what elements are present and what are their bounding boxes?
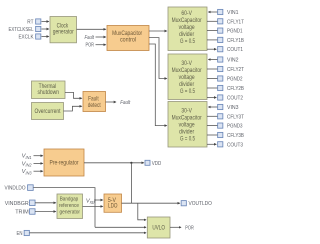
- svg-text:Pre-regulator: Pre-regulator: [50, 161, 79, 167]
- wire VIN2 into divider: [209, 59, 218, 61]
- svg-text:EXCLK: EXCLK: [19, 35, 34, 41]
- wire TRIM to bandgap: [35, 211, 56, 213]
- wire clock generator to MuxCapacitor control: [77, 28, 106, 30]
- wire 5-V LDO to VOUTLDO: [122, 202, 180, 204]
- wire VIN1 to pre-regulator: [34, 155, 43, 157]
- junction on VDD wire: [130, 162, 132, 164]
- svg-text:VIN3: VIN3: [22, 169, 32, 175]
- svg-text:CFLY2T: CFLY2T: [227, 67, 244, 73]
- pin CFLY1T: [218, 19, 245, 26]
- wire VIN3 to pre-regulator: [34, 170, 43, 172]
- wire EXCLK to clock generator: [42, 36, 49, 38]
- pin TRIM: [15, 209, 35, 216]
- svg-text:VIN2: VIN2: [22, 161, 32, 167]
- svg-text:EXTCLKSEL: EXTCLKSEL: [9, 27, 35, 33]
- pin CFLY2B: [218, 85, 244, 92]
- wire overcurrent to fault detect: [64, 106, 82, 111]
- 30-V MuxCapacitor voltage divider block U2: [168, 54, 207, 100]
- wire thermal shutdown to fault detect: [65, 92, 82, 98]
- pin PGND2: [218, 76, 243, 83]
- overcurrent block: [32, 103, 64, 120]
- svg-text:5-V LDO: 5-V LDO: [108, 198, 118, 210]
- bandgap reference generator block: [57, 194, 83, 219]
- svg-text:VIN2: VIN2: [227, 58, 239, 64]
- wire control to 60-V divider: [149, 30, 167, 32]
- wire VOUTLDO line down to UVLO: [138, 203, 146, 220]
- thermal shutdown block: [32, 81, 66, 99]
- wire CFLY3T: [207, 115, 218, 117]
- wire control to 30-V divider 2: [149, 38, 167, 79]
- wire control to 30-V divider 3: [149, 44, 167, 126]
- wire COUT3 out of divider: [207, 143, 216, 145]
- pin VIN1: [218, 9, 239, 16]
- wire bandgap VREF to 5-V LDO: [83, 205, 103, 207]
- pin VIN2: [218, 57, 239, 64]
- clock generator block: [50, 17, 77, 43]
- svg-text:POR: POR: [86, 43, 95, 49]
- wire UVLO to POR output: [170, 226, 181, 228]
- pin PGND3: [218, 123, 243, 130]
- svg-text:VINDBGR: VINDBGR: [5, 201, 29, 207]
- wire PGND3: [207, 125, 218, 127]
- svg-text:Fault detect: Fault detect: [88, 96, 101, 108]
- pin EXCLK: [19, 34, 41, 41]
- svg-text:VOUTLDO: VOUTLDO: [189, 201, 213, 207]
- wire POR to control: [96, 44, 106, 46]
- svg-text:POR: POR: [185, 225, 194, 231]
- junction VINDLDO branch to LDO: [94, 199, 96, 201]
- svg-text:CFLY3B: CFLY3B: [227, 133, 244, 139]
- pin COUT1: [218, 47, 243, 54]
- svg-text:COUT2: COUT2: [227, 96, 243, 102]
- svg-text:COUT3: COUT3: [227, 142, 243, 148]
- svg-text:CFLY1T: CFLY1T: [227, 19, 244, 25]
- pin EXTCLKSEL: [9, 26, 41, 33]
- pin VIN3: [218, 104, 239, 111]
- svg-text:PGND3: PGND3: [227, 124, 243, 130]
- svg-text:Overcurrent: Overcurrent: [35, 109, 61, 115]
- pin CFLY3B: [218, 132, 244, 139]
- pin COUT2: [218, 95, 243, 102]
- wire CFLY1T: [207, 20, 218, 22]
- svg-text:TRIM: TRIM: [15, 210, 29, 216]
- svg-text:CFLY1B: CFLY1B: [227, 38, 244, 44]
- wire VINDLDO branch into 5-V LDO: [95, 199, 103, 201]
- wire VINDLDO bottom to UVLO: [95, 226, 146, 228]
- pin CFLY1B: [218, 37, 244, 44]
- svg-text:VINDLDO: VINDLDO: [5, 186, 26, 192]
- wire CFLY3B: [207, 134, 218, 136]
- svg-text:Bandgap reference generator: Bandgap reference generator: [59, 197, 81, 216]
- svg-text:UVLO: UVLO: [152, 226, 165, 232]
- wire EXTCLKSEL to clock generator: [42, 28, 49, 30]
- svg-text:VREF: VREF: [86, 199, 96, 205]
- pin VINDBGR: [5, 200, 35, 207]
- svg-text:CFLY3T: CFLY3T: [227, 114, 244, 120]
- wire PGND1: [207, 30, 218, 32]
- wire VIN3 into divider: [209, 106, 218, 108]
- svg-text:COUT1: COUT1: [227, 47, 243, 53]
- pin CFLY3T: [218, 114, 245, 121]
- svg-text:Thermal shutdown: Thermal shutdown: [38, 84, 60, 96]
- svg-text:PGND1: PGND1: [227, 29, 243, 35]
- wire VIN2 to pre-regulator: [34, 162, 43, 164]
- svg-text:EN: EN: [17, 231, 23, 237]
- pin VINDLDO: [5, 185, 34, 192]
- svg-text:VDD: VDD: [152, 161, 162, 167]
- wire COUT1 out of divider: [207, 48, 216, 50]
- wire fault detect output: [106, 101, 116, 103]
- wire VINDBGR to bandgap: [35, 202, 56, 204]
- wire pre-regulator to VDD: [84, 162, 144, 164]
- svg-text:Fault: Fault: [120, 100, 130, 106]
- wire Fault to control: [96, 36, 106, 38]
- pin EN: [17, 230, 30, 237]
- svg-text:CFLY2B: CFLY2B: [227, 86, 244, 92]
- pre-regulator block: [44, 149, 84, 176]
- 30-V MuxCapacitor voltage divider block U3: [168, 102, 207, 148]
- wire EN to UVLO: [30, 232, 147, 234]
- wire CFLY2B: [207, 87, 218, 89]
- pin CFLY2T: [218, 66, 245, 73]
- pin COUT3: [218, 142, 243, 149]
- wire COUT2 out of divider: [207, 97, 216, 99]
- svg-text:VIN3: VIN3: [227, 105, 239, 111]
- pin PGND1: [218, 28, 243, 35]
- wire VDD junction down to VOUTLDO line: [130, 163, 132, 203]
- wire VINDLDO right and down: [33, 188, 95, 228]
- 5-V LDO block: [104, 194, 122, 212]
- wire VIN1 into divider: [209, 11, 218, 13]
- wire CFLY1B: [207, 39, 218, 41]
- svg-text:PGND2: PGND2: [227, 77, 243, 83]
- pin RT: [27, 19, 41, 26]
- wire PGND2: [207, 78, 218, 80]
- fault detect block: [83, 92, 106, 112]
- 60-V MuxCapacitor voltage divider block U1: [168, 7, 207, 51]
- wire RT to clock generator: [42, 21, 49, 23]
- wire CFLY2T: [207, 68, 218, 70]
- svg-text:VIN1: VIN1: [22, 154, 32, 160]
- svg-text:Fault: Fault: [85, 35, 95, 41]
- MuxCapacitor control block: [107, 26, 149, 51]
- pin VDD: [145, 160, 161, 167]
- pin VOUTLDO: [181, 201, 212, 208]
- UVLO block: [147, 217, 170, 238]
- svg-text:VIN1: VIN1: [227, 10, 239, 16]
- svg-text:RT: RT: [27, 20, 34, 26]
